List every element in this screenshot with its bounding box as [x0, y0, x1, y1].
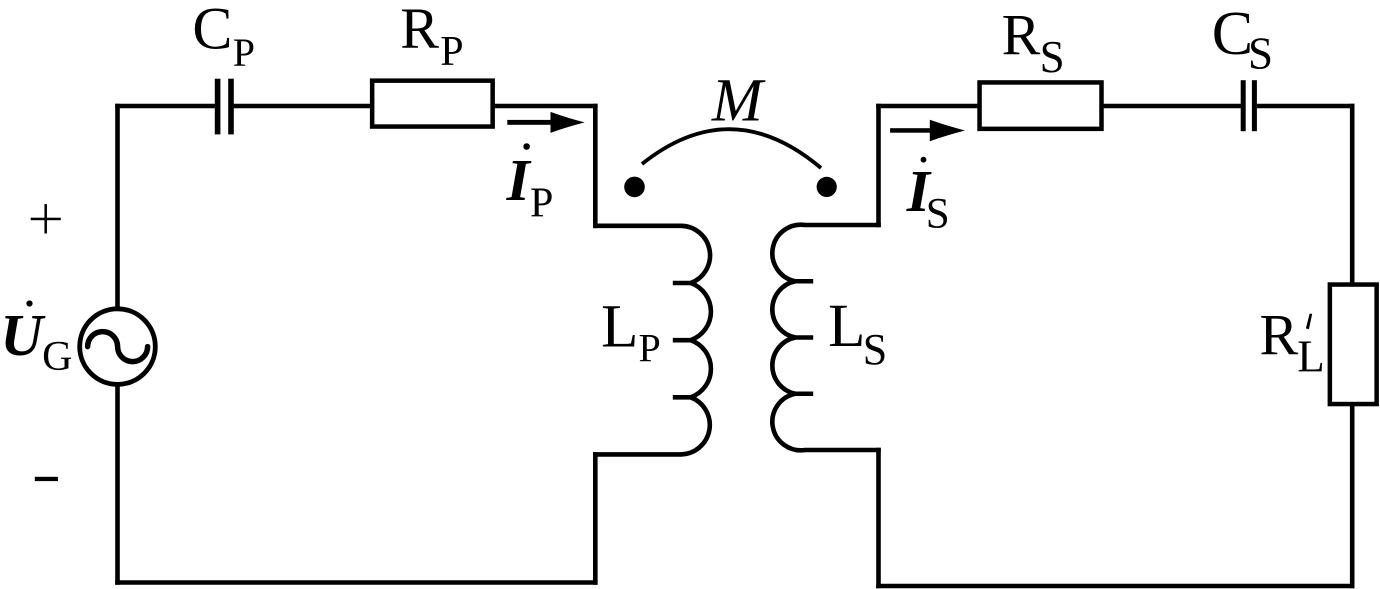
plus sign [31, 204, 61, 233]
svg-text:S: S [1248, 28, 1273, 78]
svg-text:P: P [530, 180, 553, 226]
resistor R_P [372, 81, 493, 127]
svg-text:I: I [506, 147, 532, 213]
wire top left segment of left loop [115, 104, 215, 109]
wire right vertical of left loop, upper [593, 104, 598, 228]
svg-text:L: L [601, 293, 638, 360]
svg-text:P: P [233, 30, 255, 75]
wire between C_P and R_P [233, 104, 374, 109]
wire bottom of right loop [876, 584, 1354, 589]
polarity dot of L_P [624, 177, 645, 198]
svg-text:P: P [440, 29, 463, 75]
wire L_S bottom horizontal [805, 448, 881, 453]
polarity dot of L_S [817, 177, 837, 197]
wire L_P top horizontal [593, 224, 682, 229]
wire between R_S and C_S [1102, 104, 1242, 109]
wire left vertical lower (source to bottom corner) [115, 385, 120, 585]
wire L_S top horizontal [805, 223, 881, 228]
capacitor C_P plates [215, 79, 234, 135]
svg-text:P: P [639, 325, 661, 370]
source sine wave [88, 332, 148, 362]
wire between corner and R_S [876, 104, 981, 109]
capacitor C_S plates [1241, 80, 1257, 131]
svg-text:R: R [1002, 3, 1041, 68]
svg-text:S: S [863, 325, 887, 374]
wire right loop: left vertical upper [876, 104, 881, 228]
svg-text:M: M [711, 68, 766, 135]
inductor L_P cusp tails [673, 283, 691, 397]
svg-text:L: L [1297, 332, 1325, 382]
wire top right segment of right loop [1257, 104, 1355, 109]
resistor R_L' [1330, 285, 1377, 405]
mutual inductance arc M [642, 129, 821, 168]
wire top right segment of left loop [491, 104, 598, 109]
current arrow I_P [507, 112, 584, 133]
wire right vertical upper (above R_L) [1350, 104, 1355, 286]
current arrow I_S [890, 120, 965, 142]
svg-text:U: U [0, 302, 46, 368]
svg-text:C: C [192, 0, 232, 62]
svg-text:L: L [828, 293, 865, 360]
wire right vertical of left loop, lower [593, 452, 598, 585]
svg-text:S: S [926, 191, 950, 238]
wire left vertical upper (top corner to source) [115, 104, 120, 309]
svg-text:S: S [1040, 32, 1065, 82]
minus sign [35, 477, 58, 481]
wire right vertical lower (below R_L) [1350, 404, 1355, 588]
wire bottom of left loop [115, 580, 597, 585]
inductor L_S [772, 225, 805, 451]
svg-text:R: R [1260, 303, 1299, 368]
inductor L_P [681, 226, 711, 455]
wire right loop: left vertical lower [876, 448, 881, 589]
svg-text:G: G [42, 334, 72, 380]
wire L_P bottom horizontal [593, 452, 682, 457]
inductor L_S cusp tails [795, 281, 813, 394]
resistor R_S [980, 82, 1102, 128]
svg-text:C: C [1212, 0, 1253, 68]
source U_G circle [80, 309, 156, 385]
svg-text:R: R [400, 0, 439, 61]
